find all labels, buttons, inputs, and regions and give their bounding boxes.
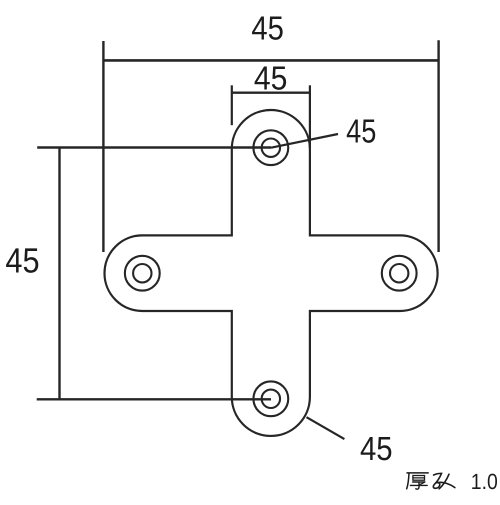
svg-text:45: 45 [360,431,393,468]
extension line through top hole centre [37,146,271,148]
hole top (outer circle) [253,130,288,165]
extension tick left of overall width dimension [102,41,104,252]
svg-text:45: 45 [5,242,39,281]
thickness note: kanji 厚 (atsu) drawn as strokes [407,473,429,489]
hole bottom (outer circle) [253,381,288,416]
svg-text:1.0: 1.0 [471,469,498,494]
leader line to bottom arm edge [307,417,345,439]
extension tick right of arm width dimension [309,85,311,148]
hole bottom (inner circle) [262,390,280,408]
extension tick right of overall width dimension [437,40,439,252]
svg-text:45: 45 [251,10,284,47]
dimension line: arm width (inner top) [232,91,310,93]
dimension line: hole spacing (left vertical) [58,147,60,399]
hole left (inner circle) [133,264,151,282]
plate outline (cross-shaped bracket) [104,110,437,436]
hole right (inner circle) [390,264,408,282]
svg-text:45: 45 [254,61,288,98]
hole top (inner circle) [262,139,280,157]
leader line to top hole [271,134,338,148]
hole left (outer circle) [125,256,160,291]
svg-text:45: 45 [346,113,376,150]
thickness note: hiragana み (mi) drawn as strokes [433,473,455,488]
dimension line: overall width (top) [103,59,438,62]
extension tick left of arm width dimension [231,85,233,125]
extension line through bottom hole centre [37,398,271,400]
hole right (outer circle) [382,256,417,291]
